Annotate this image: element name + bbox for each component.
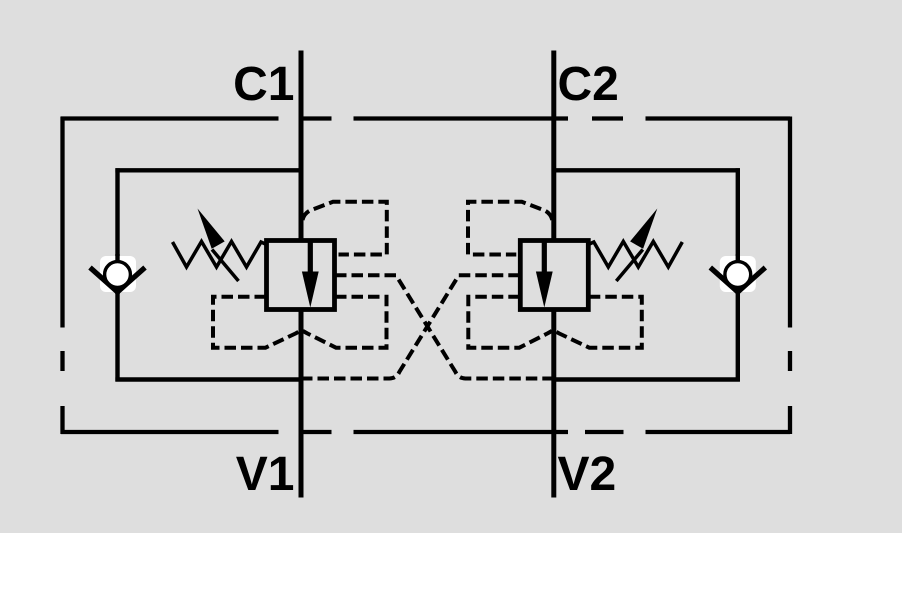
- check valve CV2 seat: [710, 268, 765, 293]
- outer boundary dashed box: right edge: [788, 117, 792, 435]
- check valve CV1 ball: [105, 262, 131, 288]
- pilot drain box right of left valve: [303, 297, 387, 348]
- outer boundary dashed box: left edge: [60, 117, 64, 435]
- counterbalance valve body left: [267, 241, 335, 310]
- adjustment arrow shaft right: [616, 250, 643, 282]
- inner solid branch box: right top edge: [554, 168, 740, 172]
- pilot drain box left of right valve: [468, 297, 552, 348]
- check valve CV2 stem: [736, 254, 740, 294]
- main port line C2-V2: [551, 51, 556, 498]
- check valve CV2 ball: [725, 262, 751, 288]
- right valve internal flow line: [542, 242, 547, 273]
- check valve branch wire left: [115, 168, 119, 381]
- check valve CV1 seat: [90, 268, 145, 293]
- check valve CV1 white backing: [100, 256, 136, 292]
- inner solid branch box: bottom edge left: [115, 377, 301, 381]
- check valve CV1 stem: [115, 254, 119, 294]
- pilot line: left valve mid port across to V2 side: [335, 275, 553, 378]
- inner solid branch box: left top edge: [115, 168, 301, 172]
- counterbalance valve body right: [520, 241, 588, 310]
- svg-text:C1: C1: [233, 58, 294, 111]
- check valve branch wire right: [736, 168, 740, 381]
- check valve CV2 white backing: [720, 256, 756, 292]
- pilot drain box right of right valve: [555, 297, 642, 348]
- outer boundary dashed box: top edge: [61, 116, 790, 120]
- inner solid branch box: bottom edge right: [554, 377, 740, 381]
- adjustment arrow head right: [630, 209, 657, 249]
- left valve internal flow line: [308, 242, 313, 273]
- pilot line: C1 tap to left valve upper port: [303, 202, 387, 255]
- spring left valve: [173, 242, 267, 268]
- adjustment arrow shaft left: [212, 250, 239, 282]
- left valve internal flow arrow: [302, 272, 319, 308]
- svg-text:V2: V2: [558, 448, 617, 501]
- pilot line: C2 tap to right valve upper port: [468, 202, 552, 255]
- main port line C1-V1: [299, 51, 304, 498]
- svg-text:C2: C2: [558, 58, 619, 111]
- spring right valve: [588, 242, 682, 268]
- svg-text:V1: V1: [236, 448, 295, 501]
- adjustment arrow head left: [198, 209, 225, 249]
- pilot drain box left of left valve: [213, 297, 300, 348]
- pilot line: right valve mid port across to V1 side: [303, 275, 520, 378]
- right valve internal flow arrow: [536, 272, 553, 308]
- outer boundary dashed box: bottom edge: [61, 430, 790, 434]
